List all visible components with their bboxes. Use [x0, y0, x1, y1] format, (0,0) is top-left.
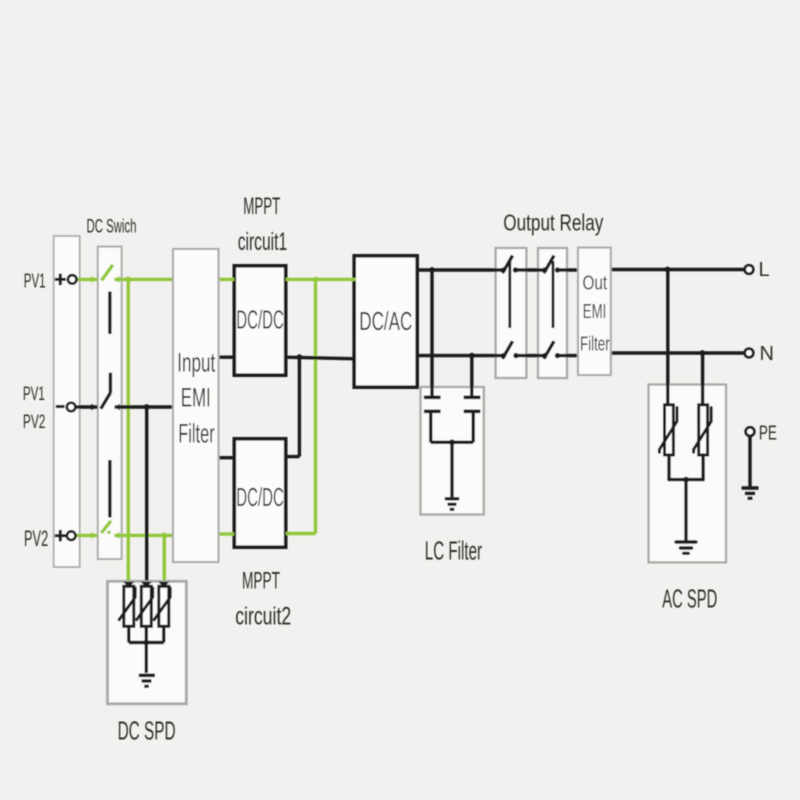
svg-text:DC/DC: DC/DC [236, 305, 283, 335]
svg-text:PV1: PV1 [24, 271, 46, 293]
svg-text:circuit2: circuit2 [235, 602, 291, 630]
svg-text:PV1: PV1 [23, 383, 45, 405]
svg-text:Filter: Filter [178, 419, 215, 449]
svg-text:EMI: EMI [583, 301, 607, 323]
svg-text:Input: Input [177, 348, 215, 378]
svg-text:Output Relay: Output Relay [503, 209, 603, 235]
svg-text:N: N [760, 343, 774, 365]
svg-text:PV2: PV2 [23, 411, 46, 433]
svg-text:circuit1: circuit1 [238, 228, 288, 256]
svg-text:Filter: Filter [580, 333, 610, 355]
svg-text:DC SPD: DC SPD [118, 715, 176, 745]
svg-text:Out: Out [583, 272, 608, 294]
svg-text:MPPT: MPPT [243, 193, 280, 220]
svg-text:DC/DC: DC/DC [236, 482, 283, 512]
svg-text:MPPT: MPPT [242, 567, 280, 594]
svg-text:PE: PE [759, 423, 777, 445]
svg-text:L: L [759, 259, 770, 281]
svg-text:DC/AC: DC/AC [359, 306, 412, 336]
svg-text:AC SPD: AC SPD [662, 583, 717, 613]
svg-text:PV2: PV2 [24, 526, 48, 551]
svg-text:LC Filter: LC Filter [425, 535, 482, 565]
svg-text:EMI: EMI [181, 383, 211, 413]
svg-text:DC Swich: DC Swich [87, 216, 137, 237]
